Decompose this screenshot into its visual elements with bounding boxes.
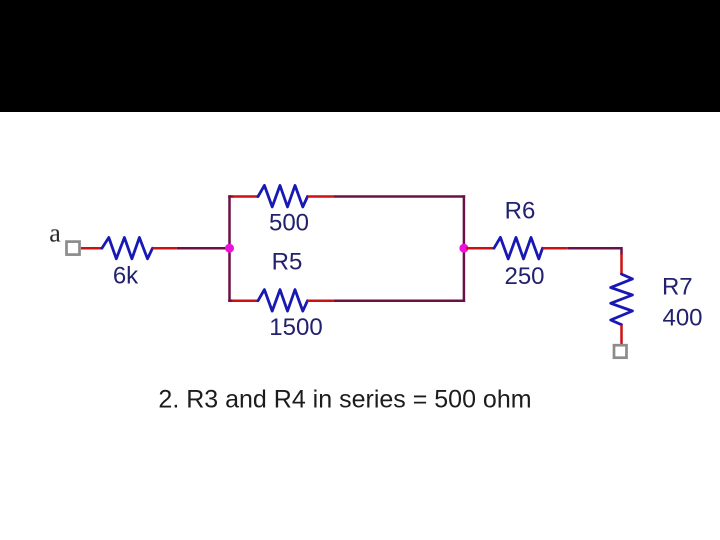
svg-text:a: a: [49, 219, 61, 248]
wire (purple) loop left vertical: [228, 195, 231, 302]
wire (purple) R6 to corner and down: [568, 248, 622, 254]
wire (purple) loop right vertical: [463, 195, 466, 302]
svg-text:500: 500: [269, 210, 309, 237]
wire (red) 6k right lead: [153, 247, 177, 250]
svg-text:6k: 6k: [113, 263, 139, 290]
svg-text:R7: R7: [662, 274, 693, 301]
svg-text:250: 250: [504, 263, 544, 290]
svg-text:400: 400: [662, 305, 702, 332]
wire (red) top-left lead: [232, 195, 258, 198]
top black band: [0, 0, 720, 112]
terminal square bottom: [614, 345, 627, 358]
resistor 6k zigzag: [102, 238, 153, 259]
wire (purple) bottom rail right of 1500: [333, 299, 465, 302]
wire (red) terminal a to 6k resistor: [81, 247, 103, 250]
resistor 1500 zigzag (bottom): [258, 290, 308, 312]
resistor R6 zigzag: [494, 237, 543, 259]
wire (red) right junction to R6: [466, 247, 494, 250]
svg-text:2. R3 and R4 in series = 500 o: 2. R3 and R4 in series = 500 ohm: [158, 385, 531, 413]
wire (red) bottom-right lead: [308, 299, 334, 302]
svg-text:R6: R6: [505, 198, 536, 225]
junction node right (magenta dot): [459, 244, 468, 253]
resistor 500 zigzag (top): [258, 185, 308, 207]
terminal a (input square): [67, 242, 80, 255]
wire (red) corner down to R7: [620, 254, 623, 275]
wire (red) R7 to bottom terminal: [620, 325, 623, 345]
svg-text:1500: 1500: [269, 314, 322, 341]
wire (purple) top-left corner stub: [228, 195, 233, 198]
wire (purple) to node junction: [177, 247, 230, 250]
resistor R7 zigzag (vertical): [611, 274, 633, 325]
wire (purple) bottom-left corner stub: [228, 299, 233, 302]
svg-text:R5: R5: [272, 249, 303, 276]
wire (red) top-right lead: [308, 195, 334, 198]
wire (red) R6 right lead: [543, 247, 568, 250]
wire (red) bottom-left lead: [232, 299, 258, 302]
junction node left (magenta dot): [225, 244, 234, 253]
wire (purple) top rail right of 500: [333, 195, 465, 198]
